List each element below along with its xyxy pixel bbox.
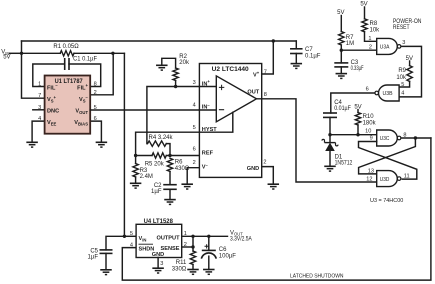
- wire FIL+ loop: [69, 64, 101, 87]
- svg-text:3.3V/2.5A: 3.3V/2.5A: [230, 237, 252, 243]
- svg-text:R10: R10: [363, 114, 375, 120]
- U2 internal IN+ wire: [199, 86, 216, 88]
- svg-text:8: 8: [264, 92, 267, 98]
- wire node to D1: [329, 135, 331, 143]
- svg-text:C1 0.1µF: C1 0.1µF: [73, 56, 97, 62]
- svg-text:5: 5: [401, 82, 404, 88]
- capacitor C4: [323, 112, 337, 114]
- wire C4 to pin10 line: [329, 117, 331, 134]
- svg-text:U2 LTC1440: U2 LTC1440: [212, 67, 250, 73]
- node V+ rail junction: [272, 39, 275, 42]
- svg-text:4: 4: [401, 90, 404, 96]
- ground below D1: [324, 165, 336, 167]
- svg-text:U4 LT1528: U4 LT1528: [144, 219, 174, 225]
- wire VEE to ground: [32, 121, 45, 142]
- svg-text:R4 3.24k: R4 3.24k: [149, 135, 174, 141]
- resistor R7: [339, 32, 344, 46]
- wire R10 to pin10 line: [357, 125, 359, 135]
- U2 internal HYST wire: [199, 112, 232, 132]
- svg-text:RESET: RESET: [393, 25, 410, 31]
- wire node to C3: [340, 50, 342, 63]
- wire R11 leads: [192, 247, 194, 251]
- wire rail to C7: [295, 41, 297, 49]
- svg-text:U3D: U3D: [380, 177, 390, 183]
- resistor R8: [362, 19, 367, 32]
- capacitor C1: [64, 58, 66, 70]
- svg-text:OUT: OUT: [247, 90, 259, 96]
- wire latched shutdown loop: [122, 138, 431, 280]
- node output/C6 junction: [207, 235, 210, 238]
- svg-text:4: 4: [193, 103, 196, 109]
- ground below R11: [187, 269, 199, 271]
- ground below U4: [152, 267, 164, 269]
- svg-text:330Ω: 330Ω: [172, 267, 187, 273]
- svg-text:VEE: VEE: [47, 120, 57, 126]
- svg-text:6: 6: [94, 116, 97, 122]
- svg-text:12: 12: [366, 176, 372, 182]
- svg-text:C6: C6: [219, 247, 227, 253]
- svg-text:4: 4: [38, 116, 41, 122]
- wire R8 to U3A pin1: [365, 32, 377, 42]
- wire U3C out to right rail: [402, 137, 431, 139]
- wire U1 VOUT to U2 IN-: [90, 109, 199, 111]
- svg-text:9: 9: [370, 136, 373, 142]
- svg-text:R9: R9: [398, 68, 406, 74]
- svg-text:10k: 10k: [370, 27, 381, 33]
- wire U2 V+ pin to rail: [262, 41, 274, 74]
- capacitor C3: [334, 62, 348, 64]
- wire C3 to ground: [340, 67, 342, 74]
- ground below VEE: [26, 141, 37, 143]
- wire VBIAS to ground: [90, 121, 101, 142]
- wire R7 to node: [340, 45, 342, 50]
- svg-text:VIN: VIN: [139, 236, 147, 242]
- svg-text:8: 8: [94, 82, 97, 88]
- wire HYST to divider: [136, 132, 200, 155]
- wire R2 to IN+ line: [175, 81, 177, 87]
- node R1 right junction: [111, 52, 114, 55]
- svg-text:2: 2: [94, 90, 97, 96]
- resistor R3: [133, 164, 138, 178]
- wire C2 to ground: [169, 189, 171, 199]
- wire IN+ line: [147, 87, 200, 144]
- wire U2 OUT to U3D pin12: [257, 99, 377, 182]
- wire R1 line right: [74, 52, 124, 54]
- svg-text:REF: REF: [202, 150, 214, 156]
- wire top 5V rail: [22, 40, 297, 42]
- wire C6 to ground: [208, 256, 210, 269]
- ground below VBIAS: [96, 141, 108, 143]
- resistor R2: [173, 68, 178, 81]
- svg-text:R11: R11: [176, 260, 187, 266]
- wire VIN riser to top rail: [21, 41, 23, 53]
- node sense/R11 junction: [191, 245, 194, 248]
- capacitor C2: [163, 184, 177, 186]
- resistor R1: [60, 51, 74, 56]
- svg-text:1N5712: 1N5712: [335, 161, 353, 167]
- wire C7 to ground: [295, 54, 297, 64]
- wire VIN to U4 pin5: [124, 235, 136, 237]
- svg-text:20k: 20k: [179, 60, 190, 66]
- ground below C2: [164, 199, 176, 201]
- wire node to U3A pin2: [341, 49, 376, 51]
- wire U4 output: [182, 235, 228, 237]
- svg-text:VOUT: VOUT: [75, 109, 88, 115]
- diode D1 1N5712: [325, 142, 336, 144]
- op-amp U2 triangle: [216, 76, 256, 122]
- svg-text:1µF: 1µF: [151, 189, 162, 195]
- svg-text:5: 5: [130, 231, 133, 237]
- capacitor C6 (polarized): [202, 249, 216, 251]
- wire U3B out to C4: [331, 93, 375, 113]
- svg-text:3: 3: [193, 80, 196, 86]
- IC U4 LT1528 regulator: [136, 224, 182, 257]
- svg-text:2: 2: [369, 45, 372, 51]
- NAND gate U3D: [377, 171, 398, 187]
- svg-text:C7: C7: [305, 47, 313, 53]
- svg-text:HYST: HYST: [202, 127, 218, 133]
- svg-text:U1 LT1787: U1 LT1787: [55, 79, 84, 85]
- wire VS+ loop: [22, 53, 45, 98]
- IC U1 LT1787 current sense amplifier: [45, 76, 91, 134]
- node VIN junction: [20, 52, 23, 55]
- svg-text:1: 1: [368, 36, 371, 42]
- resistor R6: [167, 158, 172, 171]
- svg-text:10k: 10k: [396, 75, 407, 81]
- wire R2 hook: [162, 58, 176, 68]
- ground below V-: [181, 183, 193, 185]
- ground above R2: [156, 64, 168, 66]
- svg-text:0.01µF: 0.01µF: [334, 106, 351, 112]
- svg-text:D1: D1: [335, 154, 343, 160]
- node R10 junction: [356, 133, 359, 136]
- wire pin10 line: [330, 134, 377, 136]
- svg-text:4: 4: [130, 243, 133, 249]
- svg-text:LATCHED SHUTDOWN: LATCHED SHUTDOWN: [290, 273, 344, 279]
- ground below C3: [336, 73, 348, 75]
- wire C5 to ground: [105, 253, 107, 269]
- wire latch cross pin9 to out11: [359, 142, 417, 180]
- ground below R3: [130, 182, 142, 184]
- ground below U2 GND: [268, 183, 280, 185]
- node divider right: [168, 154, 171, 157]
- node VIN/U4 junction: [123, 235, 126, 238]
- wire FIL- loop: [33, 64, 65, 87]
- wire 5V to R10: [357, 110, 359, 113]
- wire DNC stub: [33, 109, 45, 111]
- svg-text:7: 7: [38, 93, 41, 99]
- wire C6 lead: [208, 236, 210, 250]
- svg-text:5: 5: [193, 125, 196, 131]
- U2 + input symbol: [219, 85, 223, 89]
- wire U2 V- to ground: [187, 168, 199, 185]
- wire VIN to C5: [106, 236, 124, 250]
- svg-text:5V: 5V: [3, 55, 10, 61]
- wire R1 line left: [22, 52, 61, 54]
- wire latch cross out8 to pin13: [359, 138, 416, 174]
- svg-text:U3B: U3B: [383, 91, 393, 97]
- capacitor C7: [290, 48, 303, 50]
- svg-text:3: 3: [38, 105, 41, 111]
- svg-text:C4: C4: [334, 100, 342, 106]
- svg-text:10: 10: [365, 129, 371, 135]
- ground below C5: [100, 269, 112, 271]
- svg-text:R8: R8: [370, 21, 378, 27]
- svg-text:0.33µF: 0.33µF: [351, 66, 364, 72]
- svg-text:U3C: U3C: [380, 136, 390, 142]
- ground below C6: [203, 269, 215, 271]
- wire U4 sense: [182, 246, 193, 248]
- svg-text:R5 20k: R5 20k: [145, 161, 165, 167]
- capacitor C5: [100, 249, 113, 251]
- svg-text:6: 6: [366, 87, 369, 93]
- svg-text:VBIAS: VBIAS: [74, 120, 88, 126]
- node R7/C3 junction: [340, 49, 343, 52]
- node R2/IN+ junction: [174, 85, 177, 88]
- resistor R10: [355, 113, 360, 126]
- svg-text:DNC: DNC: [47, 109, 59, 115]
- wire R3 leads: [135, 156, 137, 164]
- svg-text:6: 6: [193, 147, 196, 153]
- wire U2 GND pin to ground: [262, 167, 274, 185]
- NAND gate U3A: [377, 38, 398, 54]
- svg-text:11: 11: [404, 174, 410, 180]
- wire U3A out to U3B pin4: [399, 46, 421, 97]
- resistor R9: [407, 66, 412, 82]
- resistor R11: [190, 251, 195, 265]
- svg-text:3: 3: [160, 261, 163, 267]
- svg-text:0.1µF: 0.1µF: [305, 54, 321, 60]
- wire 5V to R8: [364, 7, 366, 19]
- U2 internal IN- wire: [199, 109, 216, 111]
- wire REF row right: [166, 155, 199, 157]
- node output/R11 junction: [191, 235, 194, 238]
- wire U4 GND pin to ground: [157, 258, 159, 269]
- svg-text:GND: GND: [247, 166, 259, 172]
- wire R9 to U3B pin5: [399, 81, 410, 87]
- wire output to sense: [192, 236, 194, 247]
- svg-text:100µF: 100µF: [219, 254, 236, 260]
- node C4/D1 junction: [328, 133, 331, 136]
- svg-text:13: 13: [368, 168, 374, 174]
- wire R6 to C2: [169, 172, 171, 185]
- NAND gate U3C: [377, 130, 398, 146]
- svg-text:U3 = 74HC00: U3 = 74HC00: [370, 198, 404, 204]
- resistor R5: [152, 153, 166, 158]
- svg-text:2: 2: [193, 160, 196, 166]
- resistor R4: [148, 141, 167, 146]
- wire VS- loop: [90, 53, 113, 95]
- U2 - input symbol: [219, 109, 223, 111]
- svg-text:U3A: U3A: [380, 45, 390, 51]
- IC U2 LTC1440 comparator box: [199, 64, 261, 178]
- NAND gate U3B (mirrored): [379, 85, 400, 101]
- svg-text:R1 0.05Ω: R1 0.05Ω: [53, 44, 79, 50]
- wire VIN to junction: [10, 52, 22, 54]
- wire REF row left: [136, 155, 152, 157]
- svg-text:POWER-ON: POWER-ON: [393, 19, 422, 25]
- wire R4 to REF node: [166, 144, 170, 156]
- wire D1 to ground: [329, 151, 331, 166]
- svg-text:R6: R6: [175, 159, 183, 165]
- svg-text:2: 2: [263, 160, 266, 166]
- node divider left: [134, 154, 137, 157]
- ground below C7: [291, 63, 303, 65]
- svg-text:2.4M: 2.4M: [140, 174, 153, 180]
- wire 5V to R9: [409, 61, 411, 66]
- svg-text:1M: 1M: [346, 41, 354, 47]
- wire VIN feed down to U4: [123, 53, 125, 236]
- svg-text:1: 1: [38, 82, 41, 88]
- svg-text:3: 3: [402, 40, 405, 46]
- svg-text:180k: 180k: [363, 121, 377, 127]
- wire 5V to R7: [340, 16, 342, 32]
- svg-text:OUTPUT: OUTPUT: [157, 236, 181, 242]
- svg-text:1µF: 1µF: [88, 255, 99, 261]
- node U3C out junction: [414, 136, 417, 139]
